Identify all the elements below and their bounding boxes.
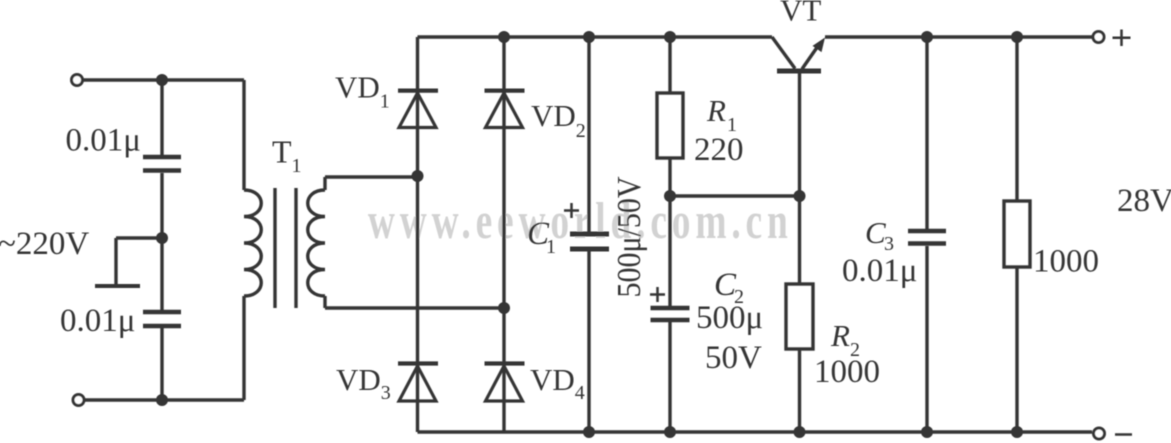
svg-text:220: 220 [694,132,744,168]
svg-text:500μ: 500μ [696,300,763,336]
svg-text:VD4: VD4 [530,362,585,404]
svg-text:1000: 1000 [814,354,880,390]
svg-text:0.01μ: 0.01μ [60,303,135,339]
svg-text:VD2: VD2 [531,98,586,142]
svg-text:C: C [865,215,886,250]
svg-text:T1: T1 [272,134,302,178]
svg-text:VD1: VD1 [335,70,390,113]
svg-text:500μ/50V: 500μ/50V [611,176,648,297]
svg-text:28V: 28V [1117,183,1171,219]
svg-text:VD3: VD3 [336,362,391,404]
svg-text:R: R [830,318,850,353]
svg-text:R: R [706,93,726,128]
svg-text:3: 3 [884,233,894,255]
svg-text:www.eeworld.com.cn: www.eeworld.com.cn [368,192,793,249]
svg-text:0.01μ: 0.01μ [66,123,141,159]
svg-text:1: 1 [546,236,556,258]
svg-text:~220V: ~220V [0,226,89,262]
svg-text:0.01μ: 0.01μ [842,253,917,289]
svg-text:VT: VT [780,0,821,28]
svg-text:50V: 50V [705,340,762,376]
svg-text:1000: 1000 [1033,244,1099,280]
